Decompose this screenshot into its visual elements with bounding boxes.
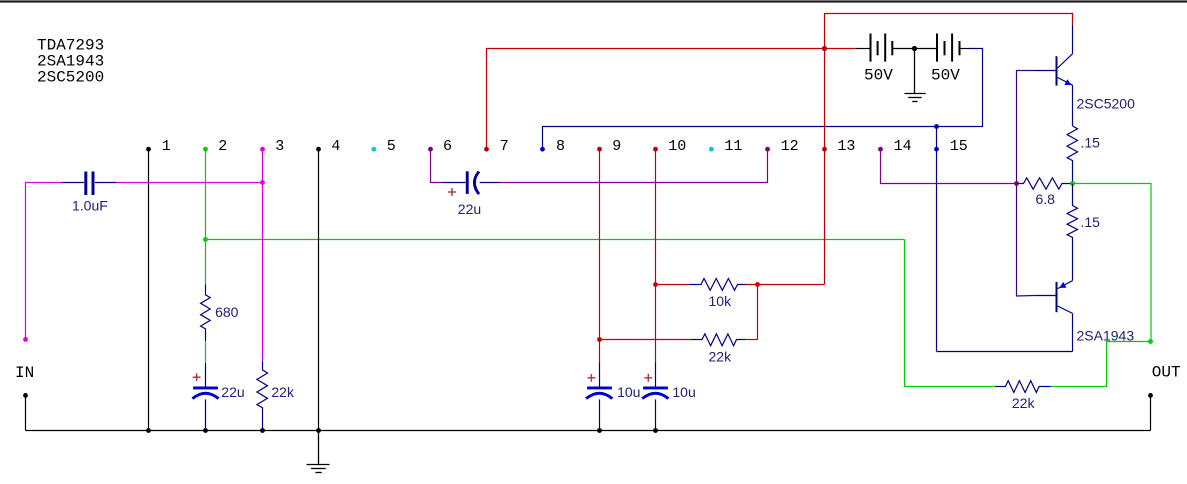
ground symbol main [307, 431, 330, 473]
base net vertical (dark violet) [1017, 71, 1035, 297]
value label 1.0uF [72, 198, 108, 214]
emitter arrow Q2 [1059, 282, 1066, 288]
node 10k right junction [755, 282, 760, 287]
resistor 10k [690, 279, 746, 291]
capacitor C 10u (pin9, polarized, vertical) [586, 363, 612, 431]
value label 10u [672, 384, 695, 400]
label 2SC5200 [1077, 96, 1136, 112]
node OUT terminal [1148, 393, 1153, 398]
node IN terminal (magenta) [23, 337, 28, 342]
node pin 9 [597, 147, 602, 152]
node bus pin3 [260, 428, 265, 433]
svg-text:6: 6 [443, 138, 452, 155]
battery B2 50V [915, 34, 971, 62]
label OUT [1152, 364, 1181, 382]
top border frame line [0, 0, 1187, 2]
svg-text:22k: 22k [271, 384, 295, 400]
svg-text:14: 14 [894, 138, 912, 155]
wire OUT to bus [1150, 395, 1152, 430]
resistor 22k feedback (green row) [995, 381, 1051, 393]
node bus pin4 [316, 428, 321, 433]
svg-text:22k: 22k [709, 349, 733, 365]
wire input magenta [26, 183, 263, 340]
node pin 15 [934, 147, 939, 152]
svg-text:2SC5200: 2SC5200 [1077, 96, 1136, 112]
node pin 12 [765, 147, 770, 152]
node pin 8 [540, 147, 545, 152]
svg-text:10k: 10k [709, 293, 733, 309]
svg-text:8: 8 [556, 138, 565, 155]
node battery center [912, 46, 917, 51]
wire pin13 red vertical and top loop [825, 14, 1073, 285]
value label 10k [709, 293, 733, 309]
wire green feedback main horizontal [206, 239, 905, 241]
battery B1 50V [856, 34, 915, 62]
node green output junction [1148, 339, 1153, 344]
svg-text:9: 9 [612, 138, 621, 155]
wire supply node to battery (red) [825, 48, 858, 50]
svg-text:3: 3 [275, 138, 284, 155]
svg-text:10u: 10u [617, 384, 640, 400]
node IN black [23, 393, 28, 398]
svg-text:50V: 50V [864, 67, 893, 85]
plus sign for 22u [193, 373, 201, 381]
emitter arrow Q1 [1064, 79, 1071, 85]
transistor Q2 2SA1943 PNP [937, 281, 1073, 352]
node pin 11 (n.c.) [709, 147, 714, 152]
value label 50V right [931, 67, 960, 85]
svg-text:OUT: OUT [1152, 364, 1181, 382]
wire pin3 down (magenta) [262, 149, 264, 361]
wire pin2 down (green) [205, 149, 207, 363]
svg-text:4: 4 [331, 138, 340, 155]
value label 22u [221, 384, 244, 400]
svg-text:11: 11 [724, 138, 742, 155]
ground battery center [905, 49, 926, 102]
resistor .15 bottom [1067, 184, 1077, 281]
capacitor C 1.0uF input [62, 172, 117, 196]
node pin10 10k junction [653, 282, 658, 287]
wire cap to pin12 (purple) [500, 149, 768, 182]
capacitor C 10u (pin10, polarized, vertical) [642, 363, 668, 431]
svg-text:2: 2 [218, 138, 227, 155]
node pin 3 [260, 147, 265, 152]
svg-text:5: 5 [387, 138, 396, 155]
node pin 13 [822, 147, 827, 152]
svg-text:.15: .15 [1081, 135, 1101, 151]
svg-text:1.0uF: 1.0uF [72, 198, 108, 214]
value label 50V left [864, 67, 893, 85]
node pin9 22k junction [597, 337, 602, 342]
wire pin15 vertical (navy) [936, 127, 938, 352]
svg-text:22u: 22u [221, 384, 244, 400]
node supply junction [822, 46, 827, 51]
value label 22k [709, 349, 733, 365]
wire pin8 to battery right (navy) [543, 49, 983, 150]
node pin 4 [316, 147, 321, 152]
svg-text:15: 15 [950, 138, 968, 155]
wire pin6 to cap (purple) [431, 149, 444, 182]
svg-text:2SC5200: 2SC5200 [37, 69, 104, 87]
svg-text:1: 1 [162, 138, 171, 155]
node cap to pin3 (magenta) [260, 180, 265, 185]
wire pin7 up to supply node (red) [487, 49, 825, 150]
capacitor C 22u (pin6-12, polarized, horizontal) [443, 171, 500, 194]
value label 10u [617, 384, 640, 400]
node bus pin2 [203, 428, 208, 433]
pin number labels 1-15 [162, 138, 968, 155]
svg-text:22k: 22k [1012, 395, 1036, 411]
node pin 7 [484, 147, 489, 152]
capacitor C 22u (pin2, polarized, vertical) [192, 363, 218, 431]
wire pin4 to ground bus [318, 149, 320, 430]
wire IN to bus [25, 395, 27, 430]
plus sign for 10u left [588, 374, 596, 382]
node pin 1 [146, 147, 151, 152]
wire pin14 to base node (purple) [881, 149, 1017, 183]
node pin 5 (n.c.) [371, 147, 376, 152]
plus sign for 22u horizontal [448, 188, 456, 196]
svg-text:22u: 22u [458, 201, 481, 217]
node bus 10u right [653, 428, 658, 433]
value label 6.8 [1036, 191, 1056, 207]
resistor .15 top [1067, 126, 1077, 184]
value label 22u [458, 201, 481, 217]
svg-text:680: 680 [215, 304, 239, 320]
svg-text:6.8: 6.8 [1036, 191, 1056, 207]
node pin 10 [653, 147, 658, 152]
wire pin10 down (red) [655, 149, 657, 362]
svg-text:50V: 50V [931, 67, 960, 85]
value label 22k feedback [1012, 395, 1036, 411]
green feedback right side wires [905, 184, 1152, 387]
label 2SA1943 [1077, 328, 1135, 344]
plus sign for 10u right [644, 374, 652, 382]
resistor 10k row wires (red) [656, 285, 825, 340]
node pin 14 [878, 147, 883, 152]
node green junction pin2/feedback [203, 237, 208, 242]
svg-text:IN: IN [15, 364, 34, 382]
value label .15 bottom [1081, 214, 1101, 230]
ground bus bottom [26, 430, 1151, 432]
node pin15/battery junction [934, 124, 939, 129]
node pin 6 [428, 147, 433, 152]
resistor 6.8 [1017, 178, 1073, 189]
svg-text:12: 12 [781, 138, 799, 155]
node base net junction [1014, 181, 1019, 186]
label IN [15, 364, 34, 382]
resistor 680 [201, 285, 211, 342]
wire pin9 down (red) [599, 149, 601, 362]
resistor 22k (red row) [691, 334, 745, 346]
value label 22k [271, 384, 295, 400]
resistor 22k (pin3) [257, 361, 268, 430]
svg-text:.15: .15 [1081, 214, 1101, 230]
value label .15 top [1081, 135, 1101, 151]
svg-text:10u: 10u [672, 384, 695, 400]
node bus 10u left [597, 428, 602, 433]
value label 680 [215, 304, 239, 320]
node pin 2 [203, 147, 208, 152]
svg-text:7: 7 [500, 138, 509, 155]
title text TDA7293 / 2SA1943 / 2SC5200 [37, 37, 104, 87]
svg-text:13: 13 [837, 138, 855, 155]
node emitter junction (green) [1070, 181, 1075, 186]
wire pin1 to ground bus [148, 149, 150, 430]
node bus pin1 [146, 428, 151, 433]
svg-text:10: 10 [668, 138, 686, 155]
resistor 22k feedback row wires (red) [600, 339, 758, 341]
transistor Q1 2SC5200 NPN [1034, 25, 1073, 126]
